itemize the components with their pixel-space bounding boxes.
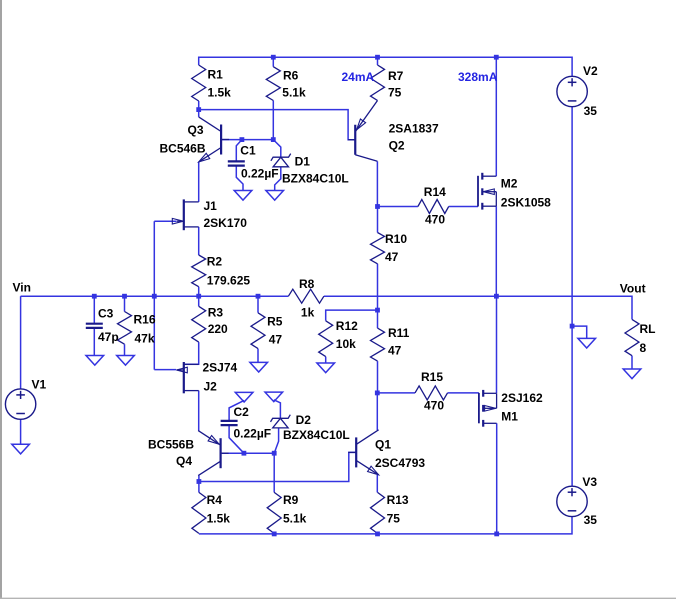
wire C2 bottom hookup [229, 425, 244, 453]
wire R11 stems [377, 310, 379, 393]
JFET J1 2SK170 [183, 199, 185, 230]
wire J2 gate [154, 369, 176, 371]
capacitor C1 [228, 160, 245, 162]
transistor Q1 2SC4793 [355, 437, 357, 467]
ground under D1 [266, 191, 284, 201]
resistor RL [625, 319, 639, 355]
svg-text:BC556B: BC556B [148, 438, 194, 452]
wire C2 top to ground above [229, 400, 244, 421]
ground above C2 [235, 392, 253, 402]
svg-text:75: 75 [387, 512, 401, 526]
svg-text:10k: 10k [336, 337, 356, 351]
wire D1 top hookup [273, 140, 281, 158]
svg-text:R8: R8 [299, 277, 315, 291]
svg-text:2SK170: 2SK170 [204, 216, 248, 230]
svg-text:M2: M2 [501, 177, 518, 191]
svg-text:1k: 1k [301, 306, 315, 320]
svg-text:24mA: 24mA [342, 70, 375, 84]
wire R14 row to M2 gate [378, 206, 479, 208]
svg-text:47: 47 [385, 250, 399, 264]
wire R6 bottom riser [272, 101, 274, 140]
transistor Q4 BC556B [220, 438, 222, 468]
svg-text:47k: 47k [135, 332, 155, 346]
svg-text:R15: R15 [421, 370, 443, 384]
svg-text:R3: R3 [208, 306, 224, 320]
wire Q4 base to D2 node [222, 452, 274, 454]
ground under V1 [12, 444, 30, 454]
svg-text:BZX84C10L: BZX84C10L [283, 428, 350, 442]
ground under R16 [117, 356, 135, 366]
window border bottom [0, 597, 676, 599]
svg-text:Q1: Q1 [375, 438, 391, 452]
transistor Q2 2SA1837 [354, 125, 356, 155]
junction dot R14 tap [375, 204, 380, 209]
svg-text:Q4: Q4 [176, 454, 192, 468]
ground under R12 [317, 363, 335, 373]
diode D2 BZX84C10L [271, 415, 291, 422]
svg-text:35: 35 [584, 104, 598, 118]
resistor R13 [371, 492, 385, 533]
svg-text:R11: R11 [388, 326, 410, 340]
svg-text:Q2: Q2 [389, 139, 405, 153]
wire R12 branch [326, 310, 378, 363]
resistor R6 [266, 67, 280, 101]
svg-text:220: 220 [208, 322, 228, 336]
wire R2 bottom stem [198, 287, 200, 297]
svg-text:R16: R16 [134, 313, 156, 327]
ground under RL [623, 369, 641, 379]
svg-text:8: 8 [640, 341, 647, 355]
capacitor C2 [221, 420, 238, 422]
svg-text:J2: J2 [204, 380, 218, 394]
wire C1 bottom to ground [236, 165, 243, 190]
svg-text:V1: V1 [32, 378, 47, 392]
wire C3 stems [93, 296, 95, 355]
svg-text:M1: M1 [501, 410, 518, 424]
resistor R10 [371, 233, 385, 264]
wire J1 gate [154, 220, 176, 222]
svg-text:35: 35 [584, 513, 598, 527]
svg-text:75: 75 [388, 86, 402, 100]
svg-text:2SJ74: 2SJ74 [203, 361, 238, 375]
junction dots bottom bus [272, 532, 277, 537]
svg-text:D1: D1 [295, 155, 311, 169]
resistor R2 [192, 255, 206, 287]
svg-text:RL: RL [640, 322, 656, 336]
svg-text:5.1k: 5.1k [283, 512, 307, 526]
svg-text:R9: R9 [283, 493, 299, 507]
ground mid-supply [578, 338, 596, 348]
wire R4 top stem [198, 482, 200, 493]
JFET J2 2SJ74 [183, 362, 185, 393]
ground under C3 [86, 356, 104, 366]
ground above D2 [265, 392, 283, 402]
wire J1 source to R2 [198, 227, 200, 255]
junction dots Q4 base node [242, 451, 247, 456]
svg-text:0.22µF: 0.22µF [241, 167, 279, 181]
wire Q3 base to D1 node [221, 139, 273, 141]
wire R16 stems [124, 296, 126, 355]
voltage source V2 [557, 76, 587, 106]
wire Q3 collector stub [198, 110, 200, 117]
wire Q1 emitter to R13 [376, 475, 378, 493]
svg-text:C3: C3 [98, 307, 114, 321]
svg-text:C2: C2 [234, 405, 250, 419]
wire RL bottom to ground [631, 356, 633, 369]
junction dots Q3 base node [240, 137, 245, 142]
wire D2 bottom hookup [274, 428, 278, 453]
svg-text:D2: D2 [296, 413, 312, 427]
svg-text:Q3: Q3 [188, 123, 204, 137]
wire main rail right to Vout corner [324, 296, 632, 319]
svg-text:Vout: Vout [620, 282, 646, 296]
wire Q2 collector riser to R10 [376, 161, 378, 206]
wire V1 top stem [20, 296, 22, 389]
junction dots top bus [271, 55, 276, 60]
wire R5 stems [257, 296, 259, 362]
MOSFET M1 2SJ162 [478, 393, 480, 423]
wire M1 drain riser to bottom bus [496, 423, 498, 534]
svg-text:328mA: 328mA [458, 70, 498, 84]
resistor R11 [371, 328, 385, 361]
svg-text:R2: R2 [207, 255, 223, 269]
svg-text:1.5k: 1.5k [207, 512, 231, 526]
resistor R1 [192, 65, 206, 101]
svg-text:V3: V3 [582, 475, 597, 489]
wire M2 source riser to Vout [495, 206, 497, 296]
resistor R4 [192, 492, 206, 533]
wire R6 top stem [272, 57, 274, 66]
wire Q4 collector node to Q1 base [199, 452, 356, 481]
wire V1 bottom to ground [20, 419, 22, 444]
resistor R12 [319, 321, 333, 357]
wire R15 row to M1 gate [377, 392, 479, 394]
wire R1 bottom node to Q2 base [199, 101, 356, 140]
wire M1 source riser to Vout [496, 296, 498, 393]
svg-text:R14: R14 [424, 185, 446, 199]
resistor R16 [118, 312, 132, 345]
svg-text:47p: 47p [98, 330, 119, 344]
junction dot R11/R12 node [375, 308, 380, 313]
resistor R7 [371, 65, 385, 101]
junction dot Q4 collector node [197, 479, 202, 484]
svg-text:R7: R7 [388, 69, 404, 83]
capacitor C3 [86, 323, 103, 325]
transistor Q3 BC546B [220, 125, 222, 155]
wire D2 top to ground above [274, 400, 281, 419]
wire R10 stems [377, 207, 379, 311]
resistor R8 [288, 289, 324, 303]
junction dot R15 tap [375, 391, 380, 396]
svg-text:BC546B: BC546B [160, 142, 206, 156]
voltage source V1 [5, 389, 35, 419]
svg-text:R13: R13 [387, 493, 409, 507]
ground under R5 [250, 362, 268, 372]
wire M2 drain riser [495, 57, 497, 176]
voltage source V3 [557, 486, 587, 516]
resistor R3 [192, 306, 206, 342]
ground under C1 [234, 191, 252, 201]
svg-text:2SJ162: 2SJ162 [501, 391, 543, 405]
svg-text:47: 47 [388, 344, 402, 358]
diode D1 BZX84C10L [271, 154, 291, 161]
svg-text:C1: C1 [240, 144, 256, 158]
wire V3 bottom to bottom bus [199, 517, 572, 534]
svg-text:BZX84C10L: BZX84C10L [282, 172, 349, 186]
wire input riser J1-J2 gates [153, 221, 155, 369]
svg-text:2SA1837: 2SA1837 [389, 122, 439, 136]
wire R3 stems and J2 drain bend [184, 296, 199, 364]
MOSFET M2 2SK1058 [477, 176, 479, 207]
wire D1 bottom to ground [275, 167, 281, 191]
svg-text:R10: R10 [385, 232, 407, 246]
svg-text:R5: R5 [267, 315, 283, 329]
junction dot Q3 collector node [196, 107, 201, 112]
svg-text:47: 47 [269, 333, 283, 347]
wire right bus V2-V3 [571, 107, 573, 487]
wire J2 source riser to Q4 [198, 391, 200, 431]
svg-text:470: 470 [424, 399, 444, 413]
resistor R5 [251, 313, 265, 349]
wire Q1 collector riser [376, 393, 378, 430]
wire C1 top hookup [236, 140, 242, 162]
wire top supply bus V+ [199, 57, 572, 76]
resistor R15 [415, 386, 448, 400]
resistor R14 [418, 200, 449, 214]
svg-text:2SK1058: 2SK1058 [501, 196, 551, 210]
svg-text:470: 470 [425, 213, 445, 227]
svg-text:R4: R4 [207, 493, 223, 507]
wire Q3 emitter to J1 drain [198, 162, 200, 202]
svg-text:R1: R1 [208, 68, 224, 82]
svg-text:J1: J1 [204, 199, 218, 213]
svg-text:V2: V2 [583, 64, 598, 78]
wire mid-supply ground tap [572, 326, 587, 338]
wire R7 top stem [377, 57, 379, 65]
window border left [0, 0, 2, 599]
svg-text:0.22µF: 0.22µF [234, 427, 272, 441]
svg-text:179.625: 179.625 [207, 274, 251, 288]
junction dot mid-supply [570, 324, 575, 329]
resistor R9 [267, 492, 281, 533]
junction dots input rail [92, 294, 97, 299]
svg-text:1.5k: 1.5k [208, 86, 232, 100]
wire main input/feedback rail left [21, 295, 289, 297]
svg-text:Vin: Vin [13, 281, 31, 295]
svg-text:R6: R6 [283, 69, 299, 83]
svg-text:2SC4793: 2SC4793 [375, 456, 425, 470]
svg-text:5.1k: 5.1k [282, 86, 306, 100]
svg-text:R12: R12 [336, 319, 358, 333]
wire R9 top stem [273, 453, 275, 492]
